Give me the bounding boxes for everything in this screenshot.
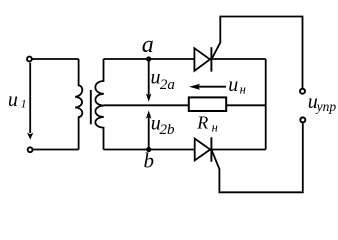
svg-text:2a: 2a [160,77,175,93]
svg-text:u: u [228,74,238,96]
svg-text:2b: 2b [160,122,176,138]
svg-text:н: н [240,83,246,97]
svg-text:a: a [142,32,154,58]
svg-text:упр: упр [315,99,337,114]
svg-text:b: b [144,148,155,172]
svg-text:u: u [8,89,18,111]
svg-text:н: н [212,121,218,135]
svg-text:1: 1 [21,99,27,111]
svg-text:R: R [196,112,208,132]
